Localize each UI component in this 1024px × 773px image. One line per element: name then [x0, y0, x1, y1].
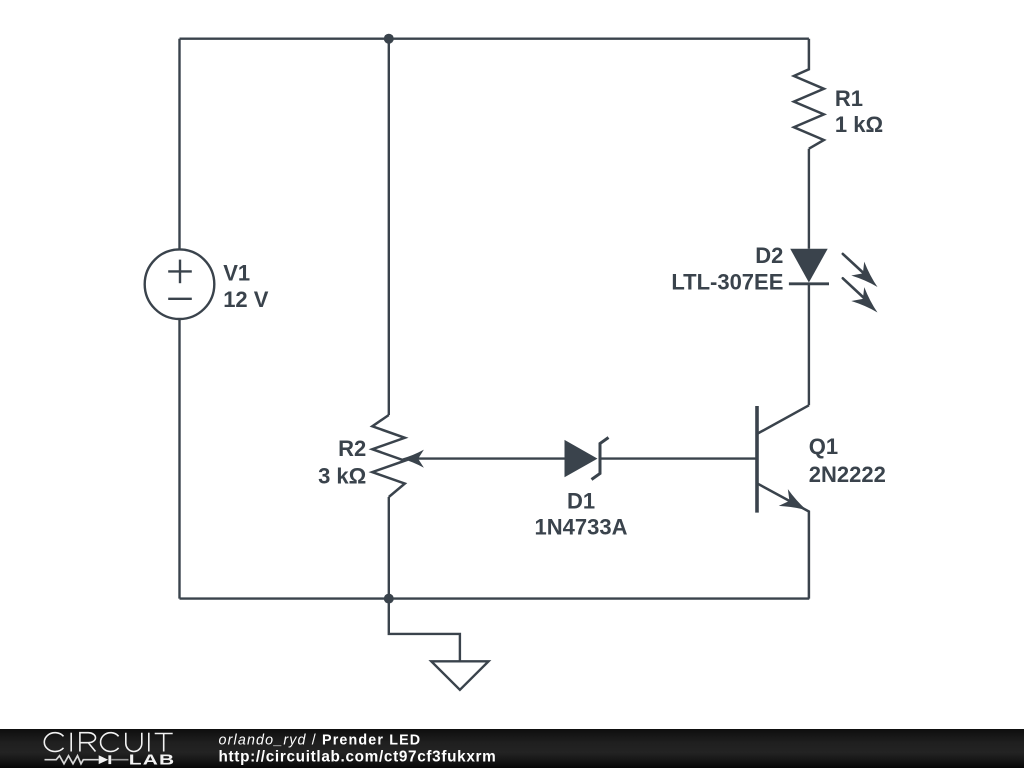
- potentiometer R2: [372, 415, 405, 497]
- wire middle rail upper: [388, 39, 390, 415]
- svg-text:D2: D2: [755, 243, 783, 268]
- zener diode D1: [565, 438, 609, 480]
- wire bottom rail: [180, 597, 810, 599]
- LED D2 light arrow 2: [843, 278, 884, 319]
- wire wiper to zener D1: [413, 457, 565, 459]
- svg-text:LTL-307EE: LTL-307EE: [671, 269, 783, 294]
- svg-text:1 kΩ: 1 kΩ: [835, 112, 883, 137]
- svg-text:http://circuitlab.com/ct97cf3f: http://circuitlab.com/ct97cf3fukxrm: [219, 748, 497, 765]
- svg-text:Q1: Q1: [809, 434, 838, 459]
- svg-text:LAB: LAB: [129, 751, 175, 768]
- svg-text:2N2222: 2N2222: [809, 462, 886, 487]
- logo CIRCUIT wordmark: [44, 733, 172, 752]
- node junction dot bottom: [384, 594, 394, 604]
- svg-text:D1: D1: [567, 489, 595, 514]
- svg-text:R2: R2: [338, 436, 366, 461]
- R2 wiper arrow: [402, 450, 424, 468]
- node junction dot top: [384, 34, 394, 44]
- svg-text:R1: R1: [835, 86, 863, 111]
- LED D2 light arrow 1: [843, 254, 884, 294]
- wire LED D2 to Q1 collector: [808, 284, 810, 406]
- ground: [389, 599, 489, 690]
- svg-text:V1: V1: [223, 261, 250, 286]
- wire zener D1 to Q1 base: [600, 457, 757, 459]
- footer bar: [0, 729, 1024, 768]
- wire left rail lower: [178, 319, 180, 599]
- resistor R1: [794, 39, 824, 149]
- svg-text:12 V: 12 V: [223, 287, 269, 312]
- logo wire graphic: [45, 755, 129, 764]
- svg-text:orlando_ryd / Prender LED: orlando_ryd / Prender LED: [219, 733, 422, 749]
- wire R1 to LED D2: [808, 149, 810, 249]
- svg-text:3 kΩ: 3 kΩ: [318, 464, 366, 489]
- wire left rail upper: [178, 39, 180, 250]
- transistor Q1: [757, 405, 812, 598]
- LED D2: [789, 249, 829, 284]
- wire middle rail lower: [388, 497, 390, 599]
- voltage source V1: [145, 249, 215, 319]
- wire top rail: [180, 38, 809, 40]
- svg-text:1N4733A: 1N4733A: [535, 515, 628, 540]
